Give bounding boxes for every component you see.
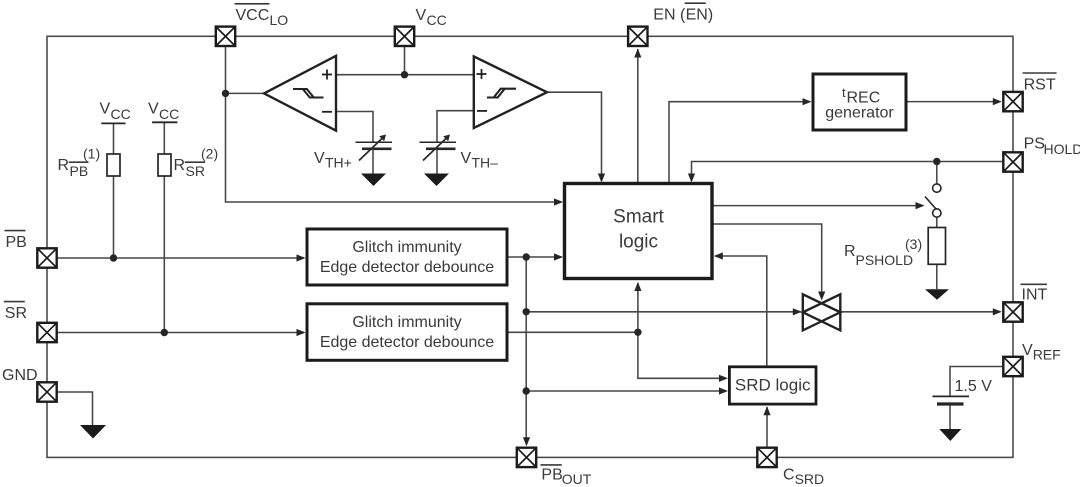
node comparator-1 output / VCC_LO — [222, 90, 229, 97]
pin PS_HOLD — [1003, 152, 1022, 171]
wire smart logic output to switch blade — [712, 205, 923, 207]
svg-text:V: V — [314, 150, 325, 167]
arrow into smart logic bottom (SR debounced) — [634, 282, 641, 291]
svg-text:VCC: VCC — [236, 7, 270, 24]
svg-text:CC: CC — [159, 106, 179, 122]
arrow into transmission gate top — [818, 292, 825, 301]
ground (R_PSHOLD) — [925, 289, 949, 300]
svg-text:R: R — [174, 157, 186, 174]
wire SRD logic output up into smart logic right side — [715, 256, 767, 367]
svg-text:REF: REF — [1033, 347, 1061, 363]
pin C_SRD — [757, 448, 776, 467]
battery 1.5V reference — [933, 396, 970, 404]
svg-text:SRD: SRD — [795, 471, 825, 487]
svg-text:Glitch immunity: Glitch immunity — [352, 314, 461, 331]
block: glitch immunity / edge detector debounce (PB channel) — [307, 229, 507, 285]
block: SRD logic — [729, 367, 816, 404]
node SR debounced — [634, 329, 641, 336]
wire comparator 1 - input to VTH+ source — [336, 112, 373, 144]
wire PS_HOLD pin to smart logic top — [692, 162, 1004, 182]
arrow into glitch box 2 — [297, 329, 306, 336]
svg-text:OUT: OUT — [562, 471, 592, 487]
svg-text:CC: CC — [111, 106, 131, 122]
arrow into transmission gate left — [793, 308, 802, 315]
svg-text:V: V — [416, 7, 427, 24]
arrow to switch blade — [916, 202, 925, 209]
wire + input bus between comparators — [336, 74, 474, 76]
VCC rail for R_SR — [152, 121, 177, 123]
svg-text:Smart: Smart — [613, 206, 664, 227]
analog switch (PSHOLD) — [925, 184, 941, 217]
wire comparator 2 - input to VTH- source — [437, 111, 474, 143]
arrow into smart logic left (PB debounced) — [554, 253, 563, 260]
svg-text:t: t — [842, 85, 846, 100]
svg-text:logic: logic — [619, 231, 658, 252]
svg-text:(2): (2) — [201, 146, 218, 162]
svg-text:(1): (1) — [83, 146, 100, 162]
wire SRD input from PB net — [526, 390, 724, 392]
wire smart logic to tREC generator input — [669, 102, 810, 184]
arrow up to EN pin — [634, 49, 641, 58]
op-amp comparator 1 (VTH+ window comparator, points left) — [264, 56, 336, 131]
pin EN — [628, 27, 647, 46]
wire EN pin down to smart logic top — [637, 49, 639, 184]
wire SR node down to SRD logic input — [638, 332, 724, 378]
block: smart logic U1 — [565, 184, 713, 279]
svg-text:V: V — [1022, 342, 1033, 359]
svg-text:TH–: TH– — [472, 155, 499, 171]
node R_PB / PB — [110, 254, 117, 261]
variable threshold source VTH+ — [356, 135, 393, 174]
ground (1.5V ref) — [939, 429, 961, 441]
svg-text:TH+: TH+ — [325, 155, 352, 171]
svg-text:PSHOLD: PSHOLD — [856, 252, 914, 268]
svg-text:V: V — [461, 150, 472, 167]
svg-text:GND: GND — [2, 367, 38, 384]
svg-text:generator: generator — [825, 104, 894, 121]
svg-text:PB: PB — [541, 467, 562, 484]
wire PS_HOLD node down to switch — [936, 162, 938, 185]
transmission gate (INT path) — [803, 294, 841, 330]
node PB debounced / PB_OUT net — [523, 253, 530, 260]
wire PB_OUT node to transmission gate — [526, 311, 800, 313]
svg-text:V: V — [148, 101, 159, 118]
svg-text:PS: PS — [1024, 136, 1045, 153]
wire VCC_LO pin down to smart-logic input, via comparator 1 output node — [226, 46, 562, 202]
svg-text:HOLD: HOLD — [1044, 141, 1080, 157]
node PS_HOLD / switch — [933, 158, 940, 165]
wire smart logic output down into transmission gate — [712, 224, 822, 299]
arrow into RST pin — [993, 98, 1002, 105]
pin SR — [37, 323, 56, 342]
arrow into PB_OUT pin — [523, 437, 530, 446]
node R_SR / SR — [161, 329, 168, 336]
wire PB pin to glitch box 1 — [57, 257, 304, 259]
resistor R_PSHOLD — [928, 228, 945, 265]
wire VREF pin to 1.5V reference — [950, 367, 1003, 396]
arrow into glitch box 1 — [297, 254, 306, 261]
wire switch to resistor R_PSHOLD — [936, 217, 938, 227]
pin VCC_LO — [216, 27, 235, 46]
wire PB_OUT vertical net — [525, 257, 527, 445]
pin INT — [1003, 302, 1022, 321]
wire C_SRD pin up to SRD logic bottom — [766, 407, 768, 448]
arrow into tREC generator — [803, 98, 812, 105]
ground (VTH+) — [361, 174, 386, 187]
wire GND pin to ground symbol — [57, 392, 93, 425]
ground (VTH-) — [424, 174, 449, 187]
resistor R_SR — [158, 154, 171, 176]
wire 1.5V reference to ground — [949, 405, 951, 429]
svg-text:SRD logic: SRD logic — [735, 376, 811, 395]
pin VCC — [395, 27, 414, 46]
svg-text:SR: SR — [5, 305, 27, 322]
svg-text:LO: LO — [270, 12, 289, 28]
svg-text:Edge detector debounce: Edge detector debounce — [320, 259, 494, 276]
arrow into SRD logic bottom (C_SRD) — [763, 406, 770, 415]
wire transmission gate to INT pin — [840, 311, 1000, 313]
block: tREC generator — [813, 74, 906, 130]
svg-text:Glitch immunity: Glitch immunity — [352, 239, 461, 256]
block: glitch immunity / edge detector debounce (SR channel) — [307, 304, 507, 361]
arrow into smart logic left (comparator signal) — [554, 198, 563, 205]
resistor R_PB — [107, 154, 120, 176]
wire outer block border — [47, 36, 1013, 457]
wire R_SR pull-up: VCC rail to SR node — [163, 122, 165, 332]
ground (GND pin) — [80, 425, 106, 439]
svg-text:): ) — [708, 7, 713, 24]
wire glitch box 2 output to SR node — [507, 331, 638, 333]
svg-text:RST: RST — [1024, 77, 1056, 94]
svg-text:R: R — [58, 157, 70, 174]
svg-text:PB: PB — [70, 163, 89, 179]
arrow into INT pin — [993, 308, 1002, 315]
pin RST — [1003, 92, 1022, 111]
pin VREF — [1003, 357, 1022, 376]
pin PB — [37, 248, 56, 267]
arrow into smart logic right (SRD feedback) — [714, 252, 723, 259]
svg-text:CC: CC — [427, 12, 447, 28]
wire comparator 2 output down into smart logic top — [547, 92, 602, 181]
pin PB_OUT — [517, 448, 536, 467]
arrow into SRD logic input 1 — [719, 375, 728, 382]
svg-text:(3): (3) — [905, 236, 922, 252]
arrow into smart logic top (PS_HOLD) — [688, 174, 695, 183]
arrow into SRD logic input 2 — [719, 387, 728, 394]
svg-text:EN (: EN ( — [653, 7, 686, 24]
variable threshold source VTH- — [420, 135, 457, 174]
arrow into smart logic top (comparator 2) — [598, 174, 605, 183]
wire glitch box 1 output to smart logic — [507, 256, 562, 258]
svg-text:1.5 V: 1.5 V — [955, 378, 993, 395]
wire SR pin to glitch box 2 — [57, 332, 304, 334]
node VCC / + inputs — [401, 71, 408, 78]
svg-text:Edge detector debounce: Edge detector debounce — [320, 334, 494, 351]
svg-text:SR: SR — [186, 163, 205, 179]
svg-text:INT: INT — [1022, 287, 1048, 304]
VCC rail for R_PB — [101, 122, 125, 124]
pin GND — [37, 382, 56, 401]
wire R_PB pull-up: VCC rail to PB node — [113, 123, 115, 258]
svg-text:EN: EN — [686, 7, 708, 24]
svg-text:PB: PB — [6, 234, 27, 251]
svg-text:V: V — [100, 101, 111, 118]
wire VCC pin down to + bus — [404, 46, 406, 75]
wire R_PSHOLD to ground — [936, 264, 938, 289]
node PB_OUT net / INT gate line — [523, 308, 530, 315]
node PB_OUT net / SRD input — [523, 387, 530, 394]
svg-text:C: C — [783, 467, 795, 484]
wire comparator 1 output to VCC_LO node — [226, 92, 265, 94]
op-amp comparator 2 (VTH- window comparator, points right) — [474, 56, 547, 128]
wire tREC generator output to RST pin — [906, 101, 1000, 103]
svg-text:R: R — [844, 243, 856, 260]
wire SR node up into smart logic bottom — [637, 283, 639, 332]
